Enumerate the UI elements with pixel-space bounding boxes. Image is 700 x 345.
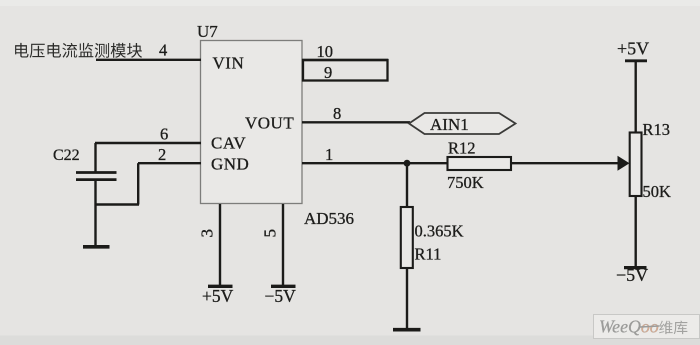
svg-text:9: 9 — [324, 63, 332, 82]
svg-text:5: 5 — [261, 229, 280, 238]
resistor R11 body — [401, 207, 413, 268]
-5V power bar (pin 5) — [271, 285, 296, 288]
svg-text:VOUT: VOUT — [245, 114, 294, 133]
wiper arrow of R13 — [618, 156, 630, 171]
svg-text:C22: C22 — [53, 147, 80, 164]
capacitor C22 bottom plate — [76, 178, 117, 181]
svg-text:AIN1: AIN1 — [430, 115, 469, 134]
svg-text:+5V: +5V — [202, 286, 234, 306]
svg-text:R12: R12 — [448, 139, 476, 158]
capacitor C22 top plate — [76, 171, 117, 174]
svg-text:2: 2 — [158, 145, 166, 164]
ground symbol under C22 — [83, 245, 110, 249]
svg-text:+5V: +5V — [617, 38, 649, 58]
wire pin 2 vertical drop — [137, 163, 139, 204]
wire R11 to ground — [406, 268, 408, 329]
svg-text:10: 10 — [317, 42, 334, 61]
wire R12 to R13 wiper — [511, 162, 620, 164]
svg-text:750K: 750K — [447, 173, 484, 192]
wire pin 10 — [302, 59, 388, 61]
wire pin 5 to -5V — [282, 204, 284, 286]
wire down to C22 top — [94, 143, 96, 172]
watermark box WeeQoo — [594, 315, 700, 339]
resistor R12 body — [448, 157, 512, 170]
pin 9 connector box — [303, 60, 388, 81]
wire pin 4 to VIN — [96, 59, 201, 61]
wire pin 8 to AIN1 — [302, 121, 410, 123]
svg-text:0.365K: 0.365K — [415, 222, 464, 241]
ground symbol under R11 — [393, 328, 421, 332]
svg-text:−5V: −5V — [616, 265, 648, 285]
svg-text:3: 3 — [198, 229, 217, 238]
svg-text:R13: R13 — [643, 120, 671, 139]
svg-text:U7: U7 — [197, 22, 218, 41]
IC U7 body (AD536) — [201, 41, 303, 204]
wire C22 bottom down to ground — [94, 180, 96, 246]
wire +5V to R13 — [635, 61, 637, 133]
wire pin 2 GND — [138, 162, 201, 164]
wire pin 6 CAV — [95, 142, 201, 144]
-5V power bar below R13 — [624, 266, 647, 269]
svg-text:R11: R11 — [415, 245, 442, 264]
net label 电压电流监测模块 (voltage/current monitor module) — [15, 43, 142, 58]
net tag AIN1 — [409, 113, 516, 134]
svg-text:−5V: −5V — [265, 286, 297, 306]
wire pin 1 net — [302, 162, 448, 164]
svg-text:GND: GND — [211, 155, 249, 174]
svg-text:1: 1 — [325, 145, 333, 164]
junction node — [404, 160, 411, 167]
svg-text:CAV: CAV — [211, 134, 246, 153]
svg-text:8: 8 — [333, 104, 341, 123]
wire to cap bottom net — [95, 203, 139, 205]
wire R13 to -5V — [635, 196, 637, 267]
potentiometer R13 body — [630, 133, 642, 197]
svg-text:AD536: AD536 — [304, 209, 354, 228]
wire pin 3 to +5V — [219, 204, 221, 286]
+5V power bar (pin 3) — [208, 285, 233, 288]
svg-text:50K: 50K — [643, 182, 672, 201]
wire junction down to R11 — [406, 163, 408, 207]
+5V power bar above R13 — [625, 59, 647, 62]
svg-text:4: 4 — [159, 40, 167, 59]
svg-text:6: 6 — [160, 124, 168, 143]
svg-text:VIN: VIN — [213, 54, 245, 73]
